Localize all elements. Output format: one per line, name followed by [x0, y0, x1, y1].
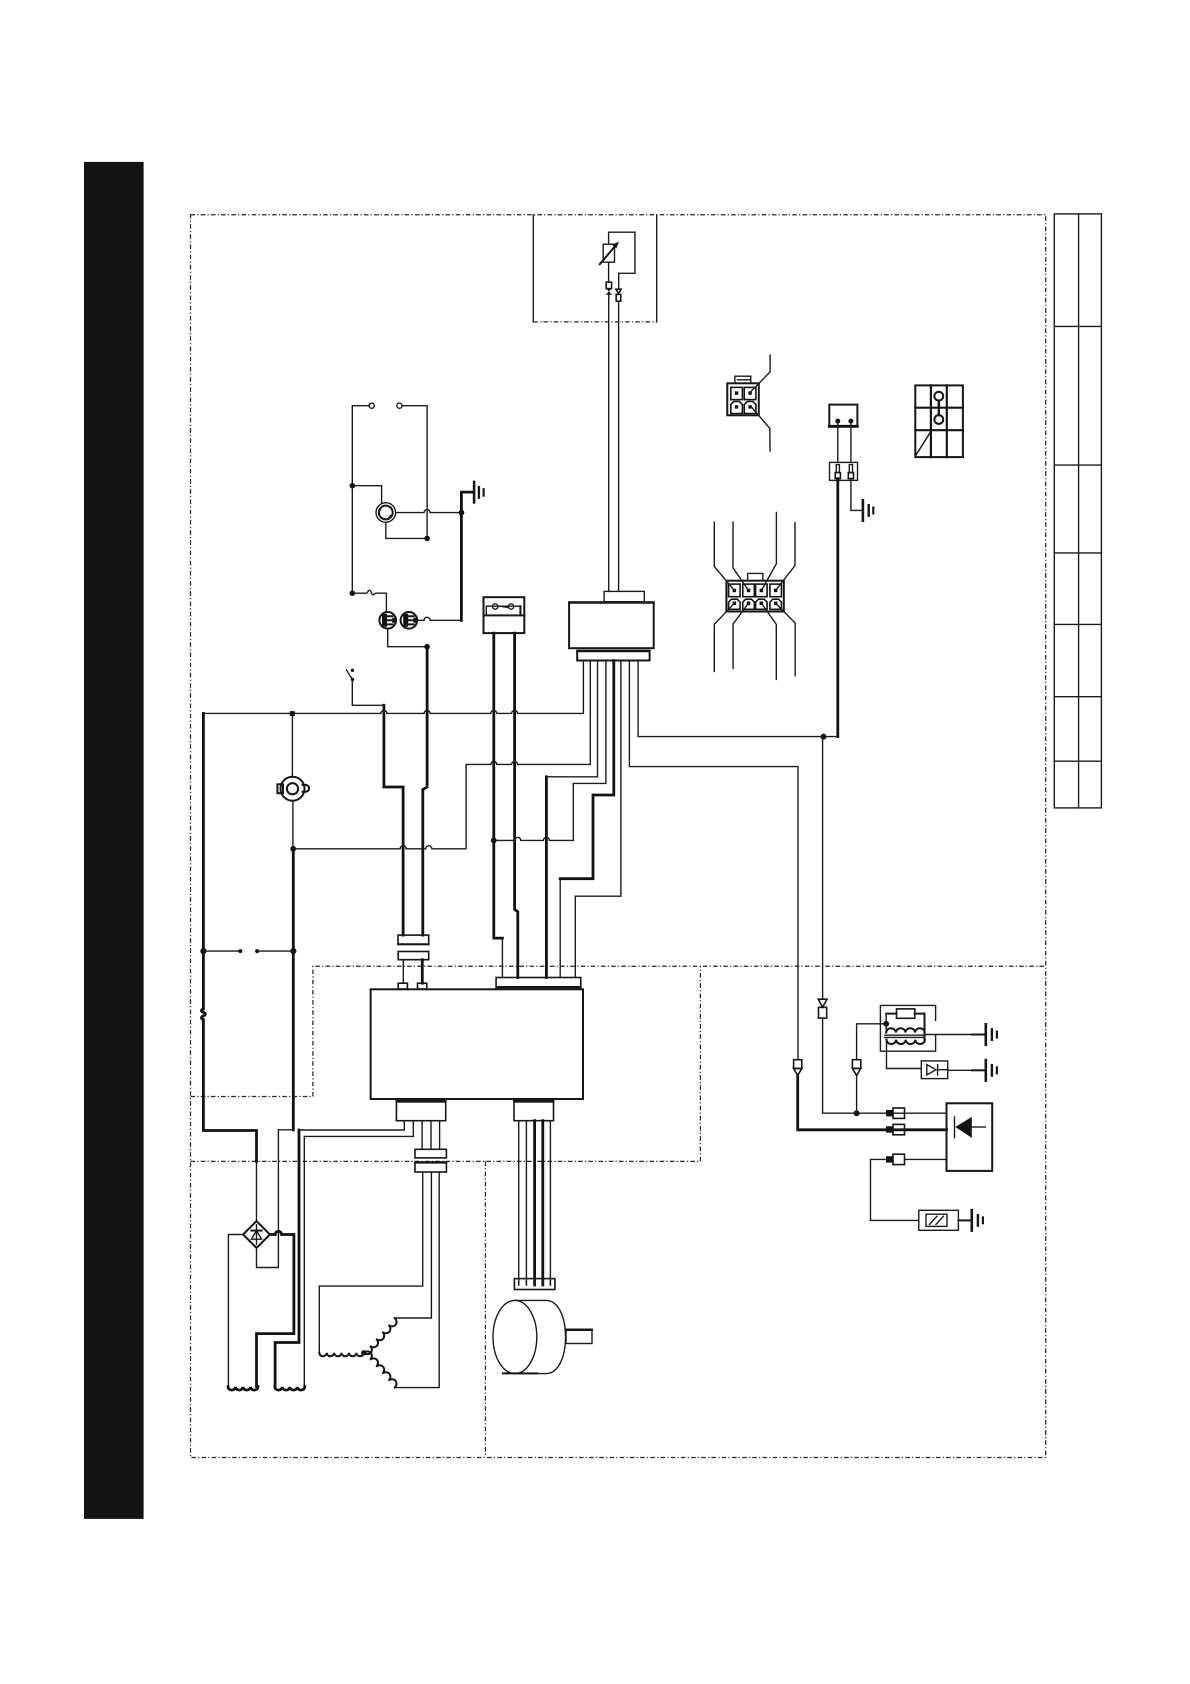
node stop switch line: [821, 734, 827, 740]
headlight bulb: [376, 503, 396, 523]
wire harness lead 5 (thick staircase to CDI): [560, 661, 614, 879]
wire 4-pin lower stub: [750, 406, 770, 451]
ground (stop switch): [863, 500, 873, 521]
flasher sub-box right edge: [656, 215, 658, 322]
wire connector to CDI pins: [402, 960, 404, 984]
wire starter leads from CDI: [518, 1121, 520, 1285]
wire lighting left drop: [351, 486, 353, 594]
wire stator phase 2: [395, 1172, 432, 1318]
CDI bottom-right connector: [514, 1101, 554, 1121]
wire harness lead 3 (thick drop to CDI): [546, 661, 597, 777]
coil core: [885, 1035, 925, 1037]
compartment partition lower (dash-dot): [191, 966, 701, 1161]
flasher/rheostat unit box: [609, 232, 635, 273]
wire horn return (thick): [292, 801, 294, 849]
bullet connector (rectifier top): [886, 1108, 905, 1118]
wire harness lead 4 (to brake switch node): [494, 661, 606, 841]
wire stop switch to ground: [851, 479, 862, 511]
wire primary to ground: [925, 1034, 973, 1036]
wire fuse line: [871, 1159, 947, 1220]
wire 8-pin stub bottom 3: [761, 603, 776, 679]
wire CDI pin (lighting out 1): [299, 1121, 404, 1130]
wire meter feed with kink: [352, 590, 386, 612]
charging diode (diamond): [243, 1221, 270, 1248]
bullet connector (rectifier mid): [886, 1124, 905, 1134]
wire 4-pin upper stub: [751, 355, 770, 391]
node primary input: [883, 1021, 889, 1027]
bullet connector (primary): [852, 1060, 860, 1076]
wire 8-pin stub top 1: [714, 522, 734, 590]
wire stop switch left lead: [837, 423, 839, 462]
main connector lower bar: [577, 651, 649, 661]
rectifier/regulator: [947, 1103, 993, 1171]
lighting terminal right: [397, 403, 402, 408]
wire harness lead 7 (to ignition coil feed): [629, 661, 798, 1060]
magneto/starter divider (dash-dot): [484, 1161, 486, 1457]
main connector body: [569, 602, 654, 648]
ground (coil primary): [986, 1024, 997, 1045]
node brake feed: [290, 948, 296, 954]
wire brake switch left (thick): [494, 633, 503, 938]
wire lighting right drop: [423, 649, 427, 936]
wire headlight return: [386, 522, 427, 538]
legend color-code table: [1054, 214, 1101, 808]
fuse: [919, 1210, 959, 1230]
front brake switch: [484, 597, 525, 633]
starter motor: [493, 1300, 565, 1373]
CDI bottom-left connector: [396, 1101, 445, 1121]
wire lighting coil right lead: [303, 1136, 305, 1386]
wire stop line down: [822, 737, 824, 1000]
stop switch connector: [830, 462, 858, 480]
wire harness lead 2 (horn return): [293, 661, 590, 849]
wire 8-pin stub bottom 2: [733, 603, 748, 668]
spark plug: [921, 1061, 947, 1079]
lighting coil (right winding): [275, 1387, 305, 1390]
wire diode left vertex to source coil: [228, 1235, 243, 1387]
lighting coil connector upper half: [398, 935, 429, 944]
ground wire (lighting, thick): [461, 492, 472, 620]
wire rheostat right lead: [618, 273, 620, 289]
wire stop switch to CDI (thick): [836, 479, 839, 737]
wire harness lead 6 (staircase to CDI): [575, 661, 621, 978]
wire harness lead 8 (stop switch line): [638, 661, 838, 737]
main switch position table: [915, 385, 963, 457]
wire rheostat left lead: [608, 262, 610, 282]
wire 8-pin stub top 4: [776, 523, 795, 591]
wire lighting left to magneto step: [352, 681, 384, 705]
flasher sub-box bottom (dash-dot): [533, 321, 656, 323]
rheostat resistor body: [603, 244, 614, 262]
node stator neutral: [361, 1350, 366, 1355]
main feed wire left (thick): [201, 713, 256, 1161]
horn feed node (square): [290, 711, 295, 716]
wire 8-pin stub bottom 4: [776, 603, 796, 676]
wire primary branch up: [856, 1076, 858, 1114]
main harness boundary (dash-dot border): [191, 215, 1046, 1458]
node coil primary branch: [854, 1110, 860, 1116]
wire headlight feed: [352, 486, 381, 503]
wire fuse to ground: [958, 1219, 970, 1221]
rheostat arrow: [600, 244, 617, 264]
wire 8-pin stub top 2: [733, 522, 749, 590]
node headlight return: [424, 536, 430, 542]
wire terminal right lead: [402, 406, 427, 536]
CDI top-right connector bar: [496, 978, 581, 988]
wire flasher to main connector (right): [618, 301, 620, 591]
lighting switch: [346, 669, 354, 682]
wire coil feed lower (thick): [798, 1076, 947, 1130]
main connector boot: [604, 591, 644, 601]
CDI / magneto control unit box: [371, 989, 583, 1099]
wire 8-pin stub bottom 1: [714, 603, 734, 671]
node horn return: [290, 846, 296, 852]
source coil (left winding): [228, 1387, 258, 1390]
wire horn line to diode bypass: [257, 1130, 294, 1268]
flasher sub-box left edge: [532, 215, 534, 322]
ground (spark plug): [986, 1060, 997, 1081]
CDI top-left pin left: [398, 983, 407, 989]
bullet connector (coil feed): [794, 1060, 802, 1076]
wire horn line down (thick): [292, 849, 295, 1130]
wire lighting coil left lead (thick): [275, 1130, 299, 1387]
wire lighting left drop thick: [384, 705, 403, 935]
stator Y winding: [319, 1318, 396, 1388]
wire stator phase 1: [319, 1172, 422, 1353]
wire CDI pin (lighting out 2): [304, 1121, 413, 1137]
starter motor connector bar: [514, 1279, 555, 1290]
ground (fuse): [972, 1210, 983, 1231]
coil primary left lead: [885, 1014, 887, 1030]
wire harness lead 1 (horn/lights feed): [203, 661, 583, 714]
wire terminal left lead: [352, 406, 369, 486]
coil primary right lead (thick): [924, 1014, 926, 1042]
meter lamp right: [401, 612, 418, 629]
page margin black bar: [84, 162, 144, 1519]
node meter return: [424, 644, 430, 650]
4-pin spare connector: [727, 376, 759, 415]
brake light switch contacts (open): [203, 950, 240, 952]
wire headlight to ground node: [396, 510, 462, 513]
wire horn feed: [291, 713, 293, 776]
wire 8-pin stub top 3: [761, 512, 776, 590]
wire spark plug to ground: [948, 1069, 972, 1071]
starter motor shaft: [566, 1329, 592, 1343]
node brake switch left / pin4: [491, 838, 497, 844]
bullet connector pair left: [606, 282, 611, 289]
node headlight feed: [350, 483, 356, 489]
magneto connector lower: [415, 1162, 446, 1172]
wire CDI charging pins: [422, 1121, 440, 1150]
wire meter return: [388, 629, 427, 647]
node headlight ground: [459, 510, 465, 516]
horn: [277, 777, 309, 801]
wire brake switch right: [515, 633, 518, 977]
lighting coil connector lower half: [398, 952, 429, 960]
lighting terminal left: [369, 403, 374, 408]
bullet connector pair right: [616, 289, 621, 293]
8-pin handlebar connector: [726, 573, 783, 611]
coil primary winding: [886, 1028, 924, 1032]
wire meter lamps to ground wire: [417, 617, 461, 620]
coil resistor links: [886, 1013, 924, 1015]
bullet connector (fuse line): [886, 1154, 905, 1164]
engine stop switch box: [829, 405, 857, 427]
ignition coil case: [880, 1005, 935, 1051]
compartment partition upper (dash-dot): [191, 966, 1046, 1096]
wire stop switch right lead: [850, 423, 852, 462]
wire stator phase 3: [395, 1172, 440, 1388]
node main feed: [200, 948, 206, 954]
ground (lighting): [474, 482, 484, 503]
wire stop line to rectifier: [823, 1018, 947, 1113]
wire primary branch to coil: [857, 1024, 887, 1060]
CDI top-left pin right: [418, 983, 427, 989]
node meter feed: [350, 590, 356, 596]
wire flasher to main connector (left): [608, 295, 610, 592]
bullet connector (stop line): [818, 999, 827, 1018]
ignition coil ballast resistor: [897, 1009, 915, 1018]
wire secondary to spark plug: [887, 1042, 922, 1069]
magneto connector upper: [415, 1149, 446, 1158]
coil secondary winding: [887, 1040, 925, 1044]
meter lamp left: [379, 612, 396, 629]
wire diode right vertex to coil (thick): [257, 1231, 294, 1386]
